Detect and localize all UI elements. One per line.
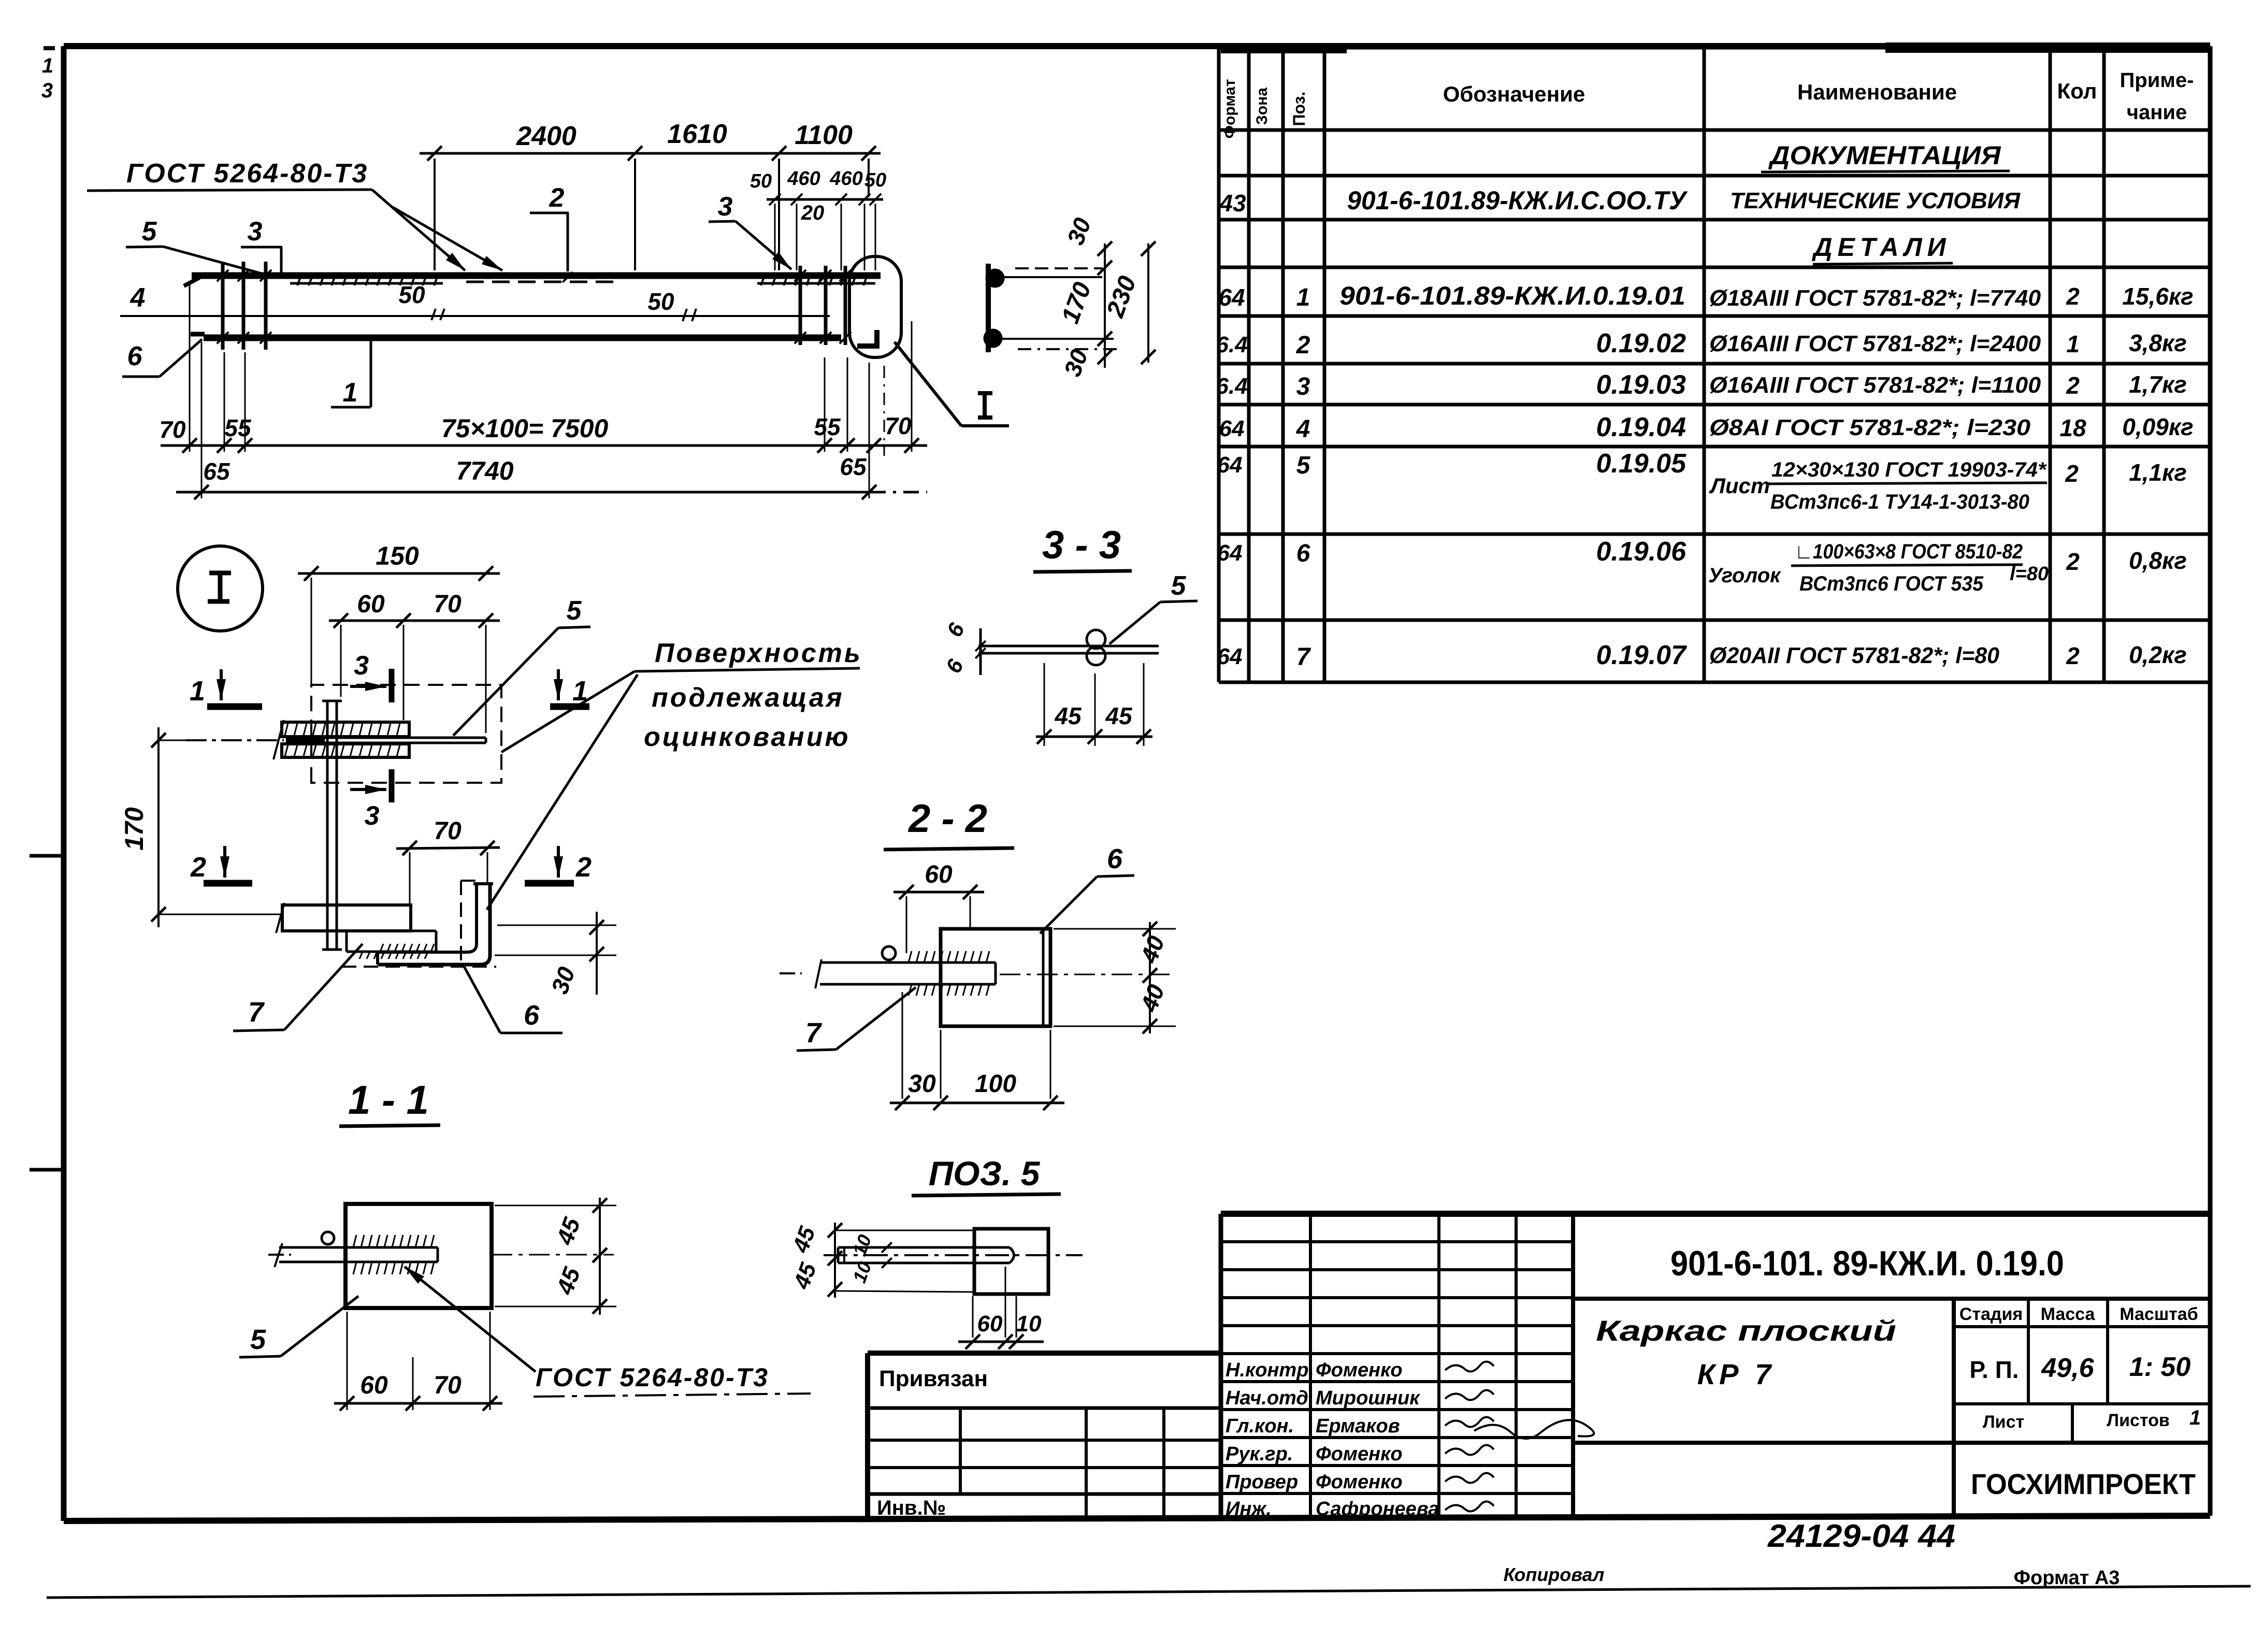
section 2-2: plate pos.5 square (941, 929, 1050, 1026)
svg-text:12×30×130 ГОСТ 19903-74*: 12×30×130 ГОСТ 19903-74* (1771, 458, 2047, 481)
svg-text:70: 70 (434, 1372, 462, 1399)
svg-text:оцинкованию: оцинкованию (644, 722, 850, 752)
svg-text:50: 50 (647, 288, 674, 315)
document number below title block (1767, 1518, 1955, 1554)
svg-text:4: 4 (130, 283, 146, 313)
svg-text:Приме-: Приме- (2120, 69, 2194, 92)
title block organization (1971, 1468, 2196, 1500)
svg-text:0.19.06: 0.19.06 (1596, 537, 1687, 567)
section 2-2: label 7 with leader (797, 987, 916, 1051)
svg-text:55: 55 (224, 414, 252, 441)
label 3 top-left with leader (241, 217, 282, 274)
svg-text:2: 2 (2066, 372, 2080, 399)
svg-text:0.19.03: 0.19.03 (1596, 370, 1687, 400)
section 1-1: plate pos.5 (345, 1204, 492, 1308)
svg-text:ПОЗ. 5: ПОЗ. 5 (929, 1154, 1041, 1193)
title block sheet row (1983, 1406, 2201, 1432)
table row: ДЕТАЛИ (1811, 233, 1953, 264)
title block stage mass scale (1959, 1304, 2198, 1383)
title block left grid (1221, 1214, 1573, 1518)
svg-text:6: 6 (127, 341, 143, 371)
svg-text:6: 6 (1296, 540, 1310, 567)
svg-text:7: 7 (248, 997, 265, 1028)
node detail: lower rod pos.7 with weld hatch (347, 931, 436, 959)
section 2-2: label 6 with leader (1040, 843, 1134, 933)
svg-text:5: 5 (142, 217, 157, 247)
svg-text:5: 5 (567, 596, 582, 626)
svg-text:Фоменко: Фоменко (1316, 1359, 1403, 1381)
svg-text:ВСт3пс6 ГОСТ 535: ВСт3пс6 ГОСТ 535 (1799, 572, 1984, 595)
node detail: anchor rod pos.7 top (186, 735, 486, 745)
svg-text:Мирошник: Мирошник (1316, 1387, 1420, 1409)
svg-text:45: 45 (551, 1213, 585, 1248)
section mark 2 right (525, 846, 592, 883)
svg-text:0,2кг: 0,2кг (2129, 641, 2187, 668)
label 6 bottom-left with leader (122, 339, 202, 377)
bottom note Копировал (1504, 1564, 1605, 1585)
bottom dimension line 7740 (176, 453, 927, 499)
svg-text:2: 2 (2066, 642, 2080, 669)
svg-text:Ø16АIII ГОСТ 5781-82*; l=1100: Ø16АIII ГОСТ 5781-82*; l=1100 (1709, 372, 2041, 398)
svg-text:1 - 1: 1 - 1 (348, 1077, 429, 1123)
pos.5: rod seen from top (824, 1247, 1083, 1263)
svg-text:3: 3 (365, 801, 380, 831)
section 1-1: label 5 with leader (239, 1296, 358, 1357)
svg-text:40: 40 (1135, 981, 1170, 1015)
svg-text:64: 64 (1218, 284, 1245, 311)
svg-text:3: 3 (41, 79, 53, 102)
linked-to box (Привязан) (868, 1353, 1221, 1519)
svg-text:45: 45 (1054, 702, 1082, 729)
svg-text:45: 45 (788, 1223, 820, 1256)
fold mark left upper (30, 854, 64, 858)
section mark 2 left (190, 846, 252, 883)
svg-text:Инв.№: Инв.№ (877, 1497, 946, 1519)
dimensions 50 460 460 50 (750, 168, 886, 270)
table row 5 (1217, 449, 2187, 513)
svg-text:49,6: 49,6 (2041, 1353, 2094, 1383)
section 3-3 title (1033, 523, 1132, 572)
table row 3 (1216, 370, 2186, 400)
node detail: dimension 150 (298, 541, 500, 685)
svg-text:7: 7 (1296, 643, 1311, 671)
svg-text:Гл.кон.: Гл.кон. (1226, 1415, 1294, 1437)
svg-text:40: 40 (1135, 932, 1170, 967)
svg-text:Фоменко: Фоменко (1316, 1471, 1403, 1493)
svg-text:45: 45 (1105, 702, 1133, 729)
svg-text:460: 460 (829, 168, 862, 190)
pos.5 title (912, 1154, 1061, 1196)
title block signatures (1445, 1361, 1594, 1511)
node detail: zinc area dashed box lower (342, 881, 496, 967)
svg-text:Поверхность: Поверхность (655, 638, 862, 668)
svg-text:5: 5 (1296, 452, 1311, 479)
svg-text:6: 6 (942, 619, 970, 641)
main view: axis line / stirrup leader pos.4 (120, 315, 830, 317)
main view: bottom longitudinal bar pos.1 (191, 334, 841, 338)
svg-text:1: 1 (2189, 1406, 2201, 1429)
bottom margin line (47, 1586, 2251, 1598)
node detail: vertical bar pos.2 (322, 701, 342, 950)
svg-text:50: 50 (864, 169, 886, 191)
svg-text:0,8кг: 0,8кг (2129, 547, 2187, 574)
svg-text:3: 3 (1296, 373, 1310, 400)
svg-text:460: 460 (787, 168, 820, 190)
section 2-2: dimension 60 (893, 861, 984, 953)
svg-text:60: 60 (360, 1372, 388, 1399)
svg-text:Сафронеева: Сафронеева (1316, 1498, 1439, 1520)
svg-text:ГОСТ 5264-80-Т3: ГОСТ 5264-80-Т3 (536, 1363, 769, 1392)
node detail: dimension 30 right (495, 912, 616, 997)
title block document number (1670, 1244, 2064, 1283)
svg-text:15,6кг: 15,6кг (2122, 283, 2193, 310)
svg-text:1: 1 (190, 676, 205, 707)
svg-text:l=80: l=80 (2010, 563, 2049, 585)
dimension 1100 (779, 120, 881, 270)
label 3 right with leader (709, 192, 791, 269)
svg-text:2: 2 (2066, 548, 2080, 575)
svg-text:ГОСТ 5264-80-Т3: ГОСТ 5264-80-Т3 (126, 159, 368, 189)
svg-text:∟100×63×8 ГОСТ 8510-82: ∟100×63×8 ГОСТ 8510-82 (1795, 540, 2023, 563)
svg-text:64: 64 (1217, 644, 1243, 669)
label 1 with leader (331, 341, 371, 408)
table row: ДОКУМЕНТАЦИЯ (1761, 141, 2010, 172)
node detail: label 7 with leader (233, 944, 363, 1031)
svg-text:Ø18АIII ГОСТ 5781-82*; l=7740: Ø18АIII ГОСТ 5781-82*; l=7740 (1709, 285, 2041, 311)
table row 6 (1217, 537, 2187, 595)
svg-text:6.4: 6.4 (1216, 332, 1247, 357)
weld note ГОСТ 5264-80-Т3 with leader (87, 159, 502, 270)
svg-text:65: 65 (840, 453, 867, 480)
section 2-2 title (884, 797, 1014, 850)
svg-text:70: 70 (434, 591, 462, 618)
section mark 1 right (550, 669, 589, 707)
section 3-3: plate edge with rod circles (975, 628, 1159, 675)
svg-text:Поз.: Поз. (1290, 92, 1308, 126)
svg-text:Уголок: Уголок (1708, 564, 1781, 587)
svg-text:3: 3 (248, 217, 263, 247)
table row 7 (1217, 640, 2187, 671)
svg-text:Копировал: Копировал (1504, 1564, 1605, 1585)
svg-text:чание: чание (2127, 101, 2187, 124)
node detail: dimensions 60 70 (329, 591, 500, 733)
label 2 mid with leader (530, 183, 573, 282)
extension lines below main view (190, 285, 912, 498)
svg-text:Кол: Кол (2057, 79, 2097, 103)
svg-text:Наименование: Наименование (1797, 80, 1957, 104)
svg-text:1: 1 (42, 54, 53, 77)
section mark 1 left (190, 669, 262, 707)
table row 1 (1218, 281, 2193, 311)
section mark 3 upper (350, 651, 392, 702)
section 1-1: dimensions 45 45 right (495, 1198, 616, 1315)
svg-text:1: 1 (2066, 331, 2080, 357)
svg-text:60: 60 (357, 591, 385, 618)
svg-text:6: 6 (524, 1000, 540, 1031)
svg-text:45: 45 (789, 1259, 821, 1292)
dimension 50 mid (647, 288, 696, 321)
svg-text:0.19.05: 0.19.05 (1596, 449, 1687, 479)
svg-text:70: 70 (159, 416, 186, 443)
svg-text:64: 64 (1217, 540, 1243, 566)
svg-text:ТЕХНИЧЕСКИЕ УСЛОВИЯ: ТЕХНИЧЕСКИЕ УСЛОВИЯ (1730, 188, 2021, 213)
main view: top longitudinal bar pos.1 (184, 276, 881, 286)
svg-text:2: 2 (575, 852, 592, 883)
svg-text:3 - 3: 3 - 3 (1042, 523, 1121, 567)
svg-text:2400: 2400 (516, 121, 576, 151)
end view: cross-section with bar dots (985, 264, 1121, 352)
bottom note Формат А3 (2014, 1567, 2120, 1589)
svg-text:подлежащая: подлежащая (652, 683, 844, 713)
svg-text:150: 150 (376, 541, 419, 570)
svg-text:Ø16АIII ГОСТ 5781-82*; l=2400: Ø16АIII ГОСТ 5781-82*; l=2400 (1709, 331, 2041, 356)
main view: plate right (edge) with weld hatch (757, 277, 875, 285)
svg-text:4: 4 (1296, 415, 1310, 443)
svg-text:7: 7 (805, 1017, 823, 1048)
svg-text:КР 7: КР 7 (1697, 1358, 1775, 1390)
svg-text:24129-04 44: 24129-04 44 (1767, 1518, 1955, 1554)
svg-text:901-6-101.89-КЖ.И.0.19.01: 901-6-101.89-КЖ.И.0.19.01 (1339, 281, 1685, 310)
node detail: lower plate pos.5 (276, 903, 411, 933)
svg-text:1610: 1610 (667, 119, 727, 149)
table row 4 (1219, 412, 2194, 443)
svg-text:70: 70 (885, 412, 912, 439)
svg-text:6.4: 6.4 (1216, 374, 1247, 399)
svg-text:30: 30 (1062, 214, 1097, 248)
label 5 top-left with leader (126, 217, 262, 274)
svg-text:30: 30 (1059, 346, 1093, 380)
node detail: zinc area dashed box upper (311, 685, 501, 783)
svg-text:2 - 2: 2 - 2 (907, 797, 987, 841)
svg-text:3,8кг: 3,8кг (2129, 329, 2187, 356)
svg-text:64: 64 (1217, 452, 1243, 478)
svg-text:Ø20АII ГОСТ 5781-82*; l=80: Ø20АII ГОСТ 5781-82*; l=80 (1709, 643, 2000, 668)
svg-text:Формат А3: Формат А3 (2014, 1567, 2120, 1589)
svg-text:0,09кг: 0,09кг (2122, 413, 2193, 440)
svg-text:230: 230 (1101, 272, 1142, 322)
svg-text:3: 3 (718, 192, 733, 222)
svg-text:Провер: Провер (1226, 1471, 1298, 1493)
section title 1-1 (339, 1077, 440, 1126)
svg-text:Рук.гр.: Рук.гр. (1226, 1443, 1293, 1465)
node detail: label 5 with leader (453, 596, 590, 736)
svg-text:70: 70 (434, 817, 462, 845)
svg-text:170: 170 (1057, 279, 1097, 327)
node detail: top plate pos.5 with weld hatch (273, 720, 409, 759)
table row 2 (1216, 328, 2186, 359)
svg-text:65: 65 (203, 458, 230, 485)
svg-text:Ермаков: Ермаков (1316, 1415, 1400, 1437)
dimension 50 left of plate (398, 281, 444, 320)
note: surface to be galvanized (487, 638, 862, 910)
node detail: angle pos.6 (378, 884, 493, 965)
spec table grid (1219, 48, 2210, 682)
svg-text:2: 2 (2065, 460, 2079, 487)
svg-text:64: 64 (1219, 416, 1245, 441)
svg-text:901-6-101.89-КЖ.И.С.ОО.ТУ: 901-6-101.89-КЖ.И.С.ОО.ТУ (1347, 186, 1689, 215)
svg-text:10: 10 (1016, 1311, 1042, 1337)
svg-text:100: 100 (975, 1070, 1016, 1098)
svg-text:75×100= 7500: 75×100= 7500 (441, 414, 609, 443)
svg-text:20: 20 (801, 202, 825, 224)
pos.5: dimensions 60 10 below (958, 1267, 1044, 1349)
svg-text:1: 1 (1296, 284, 1310, 311)
svg-text:ВСт3пс6-1 ТУ14-1-3013-80: ВСт3пс6-1 ТУ14-1-3013-80 (1770, 491, 2029, 513)
section 1-1: rod pos.7 with weld hatch (268, 1232, 614, 1274)
svg-text:7740: 7740 (456, 456, 513, 485)
svg-text:50: 50 (398, 281, 425, 308)
svg-text:Формат: Формат (1221, 79, 1238, 138)
svg-text:18: 18 (2059, 414, 2086, 441)
node I detail circle mark (178, 546, 263, 631)
svg-text:45: 45 (551, 1263, 585, 1298)
svg-text:1,1кг: 1,1кг (2129, 459, 2187, 486)
node I reference leader and symbol (895, 342, 1009, 426)
svg-text:Н.контр.: Н.контр. (1226, 1359, 1314, 1381)
main view: right stirrups pos.4 (795, 266, 851, 345)
main view: dashed lap bar pos.2 middle (466, 281, 614, 283)
svg-text:6: 6 (941, 655, 969, 677)
section 3-3 label 5 with leader (1109, 571, 1198, 644)
svg-text:Масса: Масса (2041, 1304, 2096, 1324)
bottom dimension line 75x100=7500 (159, 412, 927, 453)
node detail: dimension 170 vertical (120, 727, 282, 927)
title block drawing name (1596, 1314, 1896, 1390)
section 1-1: dimensions 60 70 (334, 1312, 502, 1411)
svg-text:3: 3 (354, 651, 369, 681)
svg-text:170: 170 (120, 807, 149, 851)
dimension 2400 (420, 121, 647, 270)
svg-text:50: 50 (750, 170, 772, 192)
main view: plate pos.5 left (edge) with weld hatch (290, 277, 443, 285)
node detail: dimension 70 lower (396, 817, 500, 905)
svg-text:55: 55 (814, 413, 841, 440)
title block roles and names (1226, 1359, 1439, 1520)
svg-text:901-6-101. 89-КЖ.И. 0.19.0: 901-6-101. 89-КЖ.И. 0.19.0 (1670, 1244, 2064, 1283)
section 3-3 dimensions 45 45 (1036, 663, 1152, 746)
svg-text:1: 50: 1: 50 (2129, 1352, 2191, 1382)
title block outer box (1221, 1214, 2210, 1518)
svg-text:Обозначение: Обозначение (1443, 82, 1585, 106)
end view dimension 170 (1057, 241, 1112, 368)
svg-text:Масштаб: Масштаб (2120, 1304, 2198, 1324)
svg-text:1,7кг: 1,7кг (2129, 371, 2187, 398)
main view: bottom-right angle pos.6 end (857, 330, 877, 346)
end view dimension 230 and 30s (1059, 214, 1156, 380)
svg-text:Лист: Лист (1983, 1412, 2024, 1432)
svg-text:Р. П.: Р. П. (1969, 1356, 2019, 1383)
section 2-2: dimensions 40 40 (1000, 922, 1176, 1033)
svg-text:ГОСХИМПРОЕКТ: ГОСХИМПРОЕКТ (1971, 1468, 2196, 1500)
svg-text:6: 6 (1107, 843, 1123, 874)
svg-text:1100: 1100 (795, 120, 853, 150)
svg-text:Фоменко: Фоменко (1316, 1443, 1403, 1465)
section 3-3 thickness labels 6/6 (941, 619, 970, 677)
spec table header (1221, 69, 2194, 139)
svg-text:Листов: Листов (2107, 1411, 2170, 1430)
svg-text:60: 60 (925, 861, 953, 888)
svg-text:5: 5 (1171, 571, 1187, 601)
svg-text:43: 43 (1219, 190, 1246, 217)
svg-text:Инж.: Инж. (1226, 1498, 1272, 1520)
table row: технические условия (1219, 186, 2021, 217)
title block grid right (1573, 1299, 2210, 1518)
svg-text:0.19.04: 0.19.04 (1596, 412, 1687, 442)
svg-text:ДЕТАЛИ: ДЕТАЛИ (1811, 233, 1951, 262)
svg-text:0.19.02: 0.19.02 (1596, 328, 1687, 358)
main view: left stirrups pos.4 (217, 262, 271, 350)
svg-text:30: 30 (546, 963, 581, 997)
svg-text:2: 2 (2066, 283, 2080, 310)
svg-text:30: 30 (908, 1070, 936, 1098)
svg-text:0.19.07: 0.19.07 (1596, 640, 1688, 670)
svg-text:Каркас плоский: Каркас плоский (1596, 1314, 1896, 1347)
section 2-2: rod pos.7 with weld (780, 946, 996, 996)
margin mark top-left (41, 48, 55, 102)
svg-text:Привязан: Привязан (879, 1366, 988, 1391)
svg-text:ДОКУМЕНТАЦИЯ: ДОКУМЕНТАЦИЯ (1768, 141, 2001, 170)
section 2-2: dimensions 30 100 (890, 992, 1064, 1110)
svg-text:Нач.отд: Нач.отд (1226, 1387, 1308, 1409)
svg-text:5: 5 (250, 1324, 266, 1355)
dimension 1610 (635, 119, 786, 270)
svg-text:Ø8АI ГОСТ 5781-82*; l=230: Ø8АI ГОСТ 5781-82*; l=230 (1709, 415, 2031, 440)
fold mark left lower (30, 1168, 64, 1172)
svg-text:2: 2 (1296, 332, 1310, 359)
pos.5: dimensions 10 10 (848, 1232, 892, 1286)
svg-text:1: 1 (343, 378, 358, 408)
svg-text:60: 60 (977, 1311, 1003, 1337)
pos.5: dimensions 45 45 left (788, 1223, 974, 1298)
section mark 3 lower (350, 769, 392, 831)
pos.5: slotted plate top view (974, 1229, 1048, 1294)
svg-text:Лист: Лист (1709, 473, 1770, 498)
svg-text:Зона: Зона (1253, 88, 1271, 125)
node detail: label 6 with leader (464, 966, 563, 1033)
weld note ГОСТ 5264-80-Т3 bottom with arrow (405, 1267, 811, 1397)
svg-text:Стадия: Стадия (1959, 1304, 2023, 1324)
svg-text:2: 2 (190, 852, 206, 883)
label 4 with leader line (130, 283, 146, 313)
main view: node I callout blob (849, 256, 901, 357)
svg-text:2: 2 (549, 183, 565, 213)
